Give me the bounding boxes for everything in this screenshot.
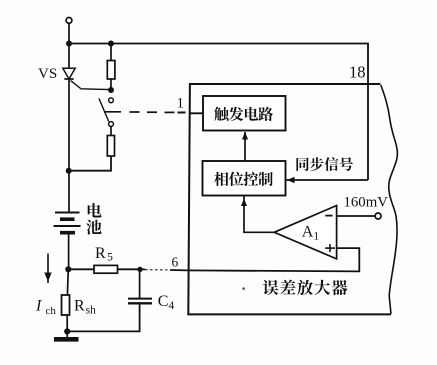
wire [118, 268, 141, 270]
capacitor C4 [128, 299, 152, 304]
svg-text:VS: VS [38, 66, 57, 82]
wire [68, 79, 70, 213]
node junction ground [64, 328, 70, 334]
svg-text:6: 6 [172, 254, 179, 269]
wire node 6 main run to + input [170, 248, 359, 271]
switch contact lower [109, 122, 114, 127]
battery plates [54, 213, 81, 233]
node junction battery bottom [65, 266, 71, 272]
label battery 电池 [88, 203, 102, 218]
node junction top-left [66, 41, 72, 47]
wire faint dotted continuation [145, 269, 170, 271]
svg-text:1: 1 [177, 95, 184, 111]
wire [68, 233, 70, 269]
block trigger circuit 触发电路 [203, 96, 286, 131]
node junction 6 branch [137, 267, 142, 272]
node junction switch top [108, 87, 114, 93]
svg-text:C4: C4 [158, 293, 175, 312]
node junction resistor branch [108, 41, 114, 47]
ground [54, 337, 79, 342]
label error amplifier 误差放大器 [263, 280, 279, 295]
wire [110, 44, 112, 61]
svg-text:18: 18 [349, 63, 366, 82]
svg-text:I: I [35, 297, 42, 314]
resistor Rsh [62, 295, 70, 315]
wire node 6 to error amp + input [140, 268, 145, 270]
switch blade [99, 99, 109, 122]
wire [67, 303, 140, 331]
node junction left rail [66, 168, 72, 174]
svg-text:Rsh: Rsh [74, 298, 96, 317]
wire [139, 269, 141, 298]
block phase control 相位控制 [203, 161, 286, 196]
wire node 1 solid into trigger box [189, 112, 204, 114]
wire op-amp output to phase control with up arrow [244, 196, 275, 233]
wire [68, 44, 70, 69]
terminal input top [66, 18, 72, 24]
resistor R5 [94, 265, 118, 273]
svg-text:160mV: 160mV [344, 194, 389, 210]
resistor upper (switch branch) [107, 61, 115, 80]
op-amp A1 error amplifier [274, 206, 336, 259]
switch contact upper [109, 98, 114, 103]
label sync signal 同步信号 [296, 158, 308, 171]
terminal 160mV [375, 213, 381, 219]
wire phase control to trigger with up arrow [242, 132, 248, 162]
wire [68, 268, 94, 270]
wire node 1 dashed to switch [104, 111, 186, 114]
wire [110, 127, 112, 136]
current arrow Ich [44, 254, 51, 284]
wire sync signal into phase control with left arrow [287, 177, 369, 183]
plus input mark [325, 244, 335, 252]
resistor lower (switch branch) [107, 136, 114, 157]
minus input mark [325, 215, 332, 217]
diode VS (thyristor) [63, 68, 75, 79]
wire top rail [69, 44, 368, 181]
wire [66, 269, 69, 295]
wire gate of VS to switch node [71, 81, 110, 90]
small speck before label [243, 288, 245, 290]
wire [66, 315, 68, 337]
wire [68, 23, 70, 43]
svg-text:R5: R5 [95, 245, 113, 264]
wire [110, 79, 112, 90]
IC outer box with wavy right edge [188, 84, 391, 314]
wire [69, 156, 112, 171]
wire minus input to 160mV terminal [337, 215, 376, 217]
svg-text:ch: ch [46, 305, 57, 317]
